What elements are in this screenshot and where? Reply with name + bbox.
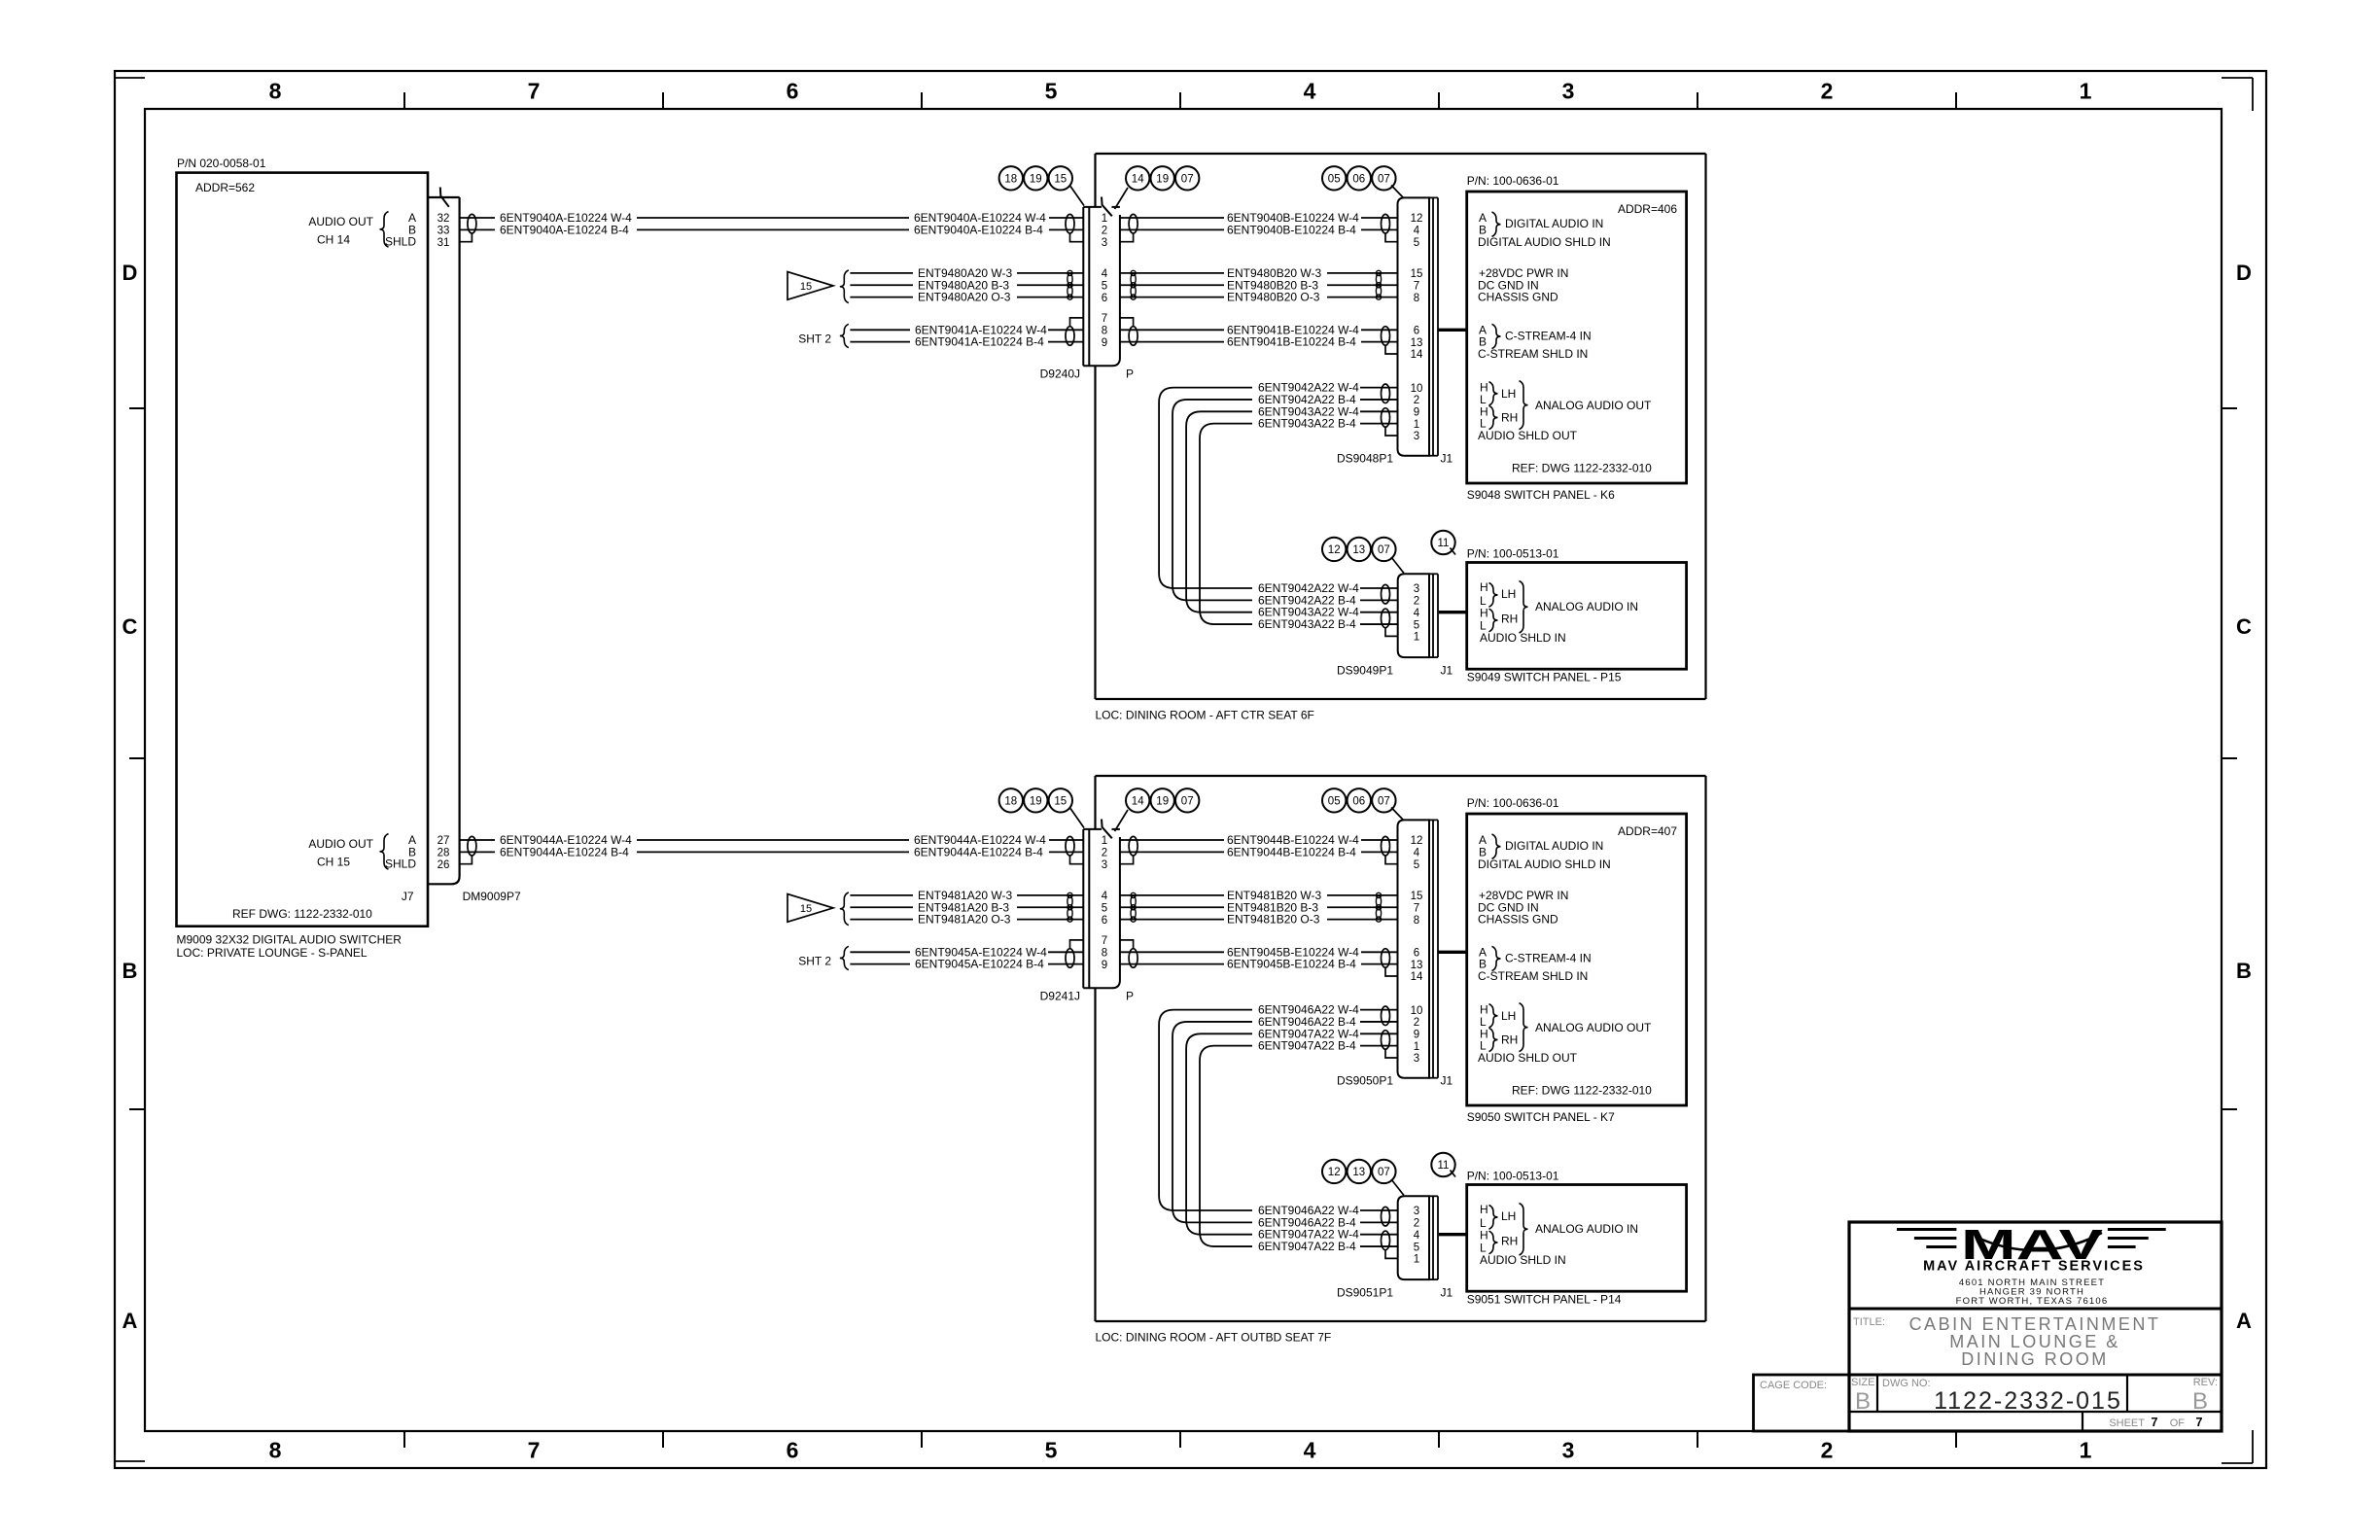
svg-text:3: 3 — [1414, 1206, 1419, 1217]
svg-text:C-STREAM SHLD IN: C-STREAM SHLD IN — [1478, 347, 1588, 361]
svg-text:M9009 32X32 DIGITAL AUDIO SWIT: M9009 32X32 DIGITAL AUDIO SWITCHER — [177, 933, 402, 947]
svg-text:6ENT9040B-E10224 B-4: 6ENT9040B-E10224 B-4 — [1227, 223, 1356, 236]
svg-text:A: A — [122, 1309, 138, 1333]
svg-text:8: 8 — [1414, 293, 1419, 304]
svg-text:5: 5 — [1102, 902, 1107, 914]
svg-text:7: 7 — [1102, 935, 1107, 947]
svg-text:2: 2 — [1414, 1218, 1419, 1230]
svg-text:D9241J: D9241J — [1040, 990, 1080, 1003]
svg-text:1: 1 — [1102, 213, 1107, 225]
svg-text:12: 12 — [1328, 1167, 1341, 1178]
svg-text:RH: RH — [1501, 1235, 1518, 1248]
svg-text:15: 15 — [1054, 795, 1067, 807]
svg-text:10: 10 — [1411, 1005, 1423, 1017]
svg-text:31: 31 — [437, 237, 450, 249]
svg-text:8: 8 — [269, 1438, 282, 1463]
svg-text:AUDIO SHLD IN: AUDIO SHLD IN — [1480, 1253, 1566, 1267]
svg-text:DIGITAL AUDIO SHLD IN: DIGITAL AUDIO SHLD IN — [1478, 857, 1611, 871]
svg-text:RH: RH — [1501, 612, 1518, 626]
svg-text:ANALOG AUDIO OUT: ANALOG AUDIO OUT — [1535, 399, 1652, 412]
svg-text:5: 5 — [1414, 237, 1419, 249]
svg-text:5: 5 — [1045, 79, 1058, 104]
svg-text:26: 26 — [437, 859, 450, 871]
svg-text:P/N: 100-0636-01: P/N: 100-0636-01 — [1467, 796, 1559, 810]
svg-text:11: 11 — [1438, 538, 1450, 549]
svg-text:3: 3 — [1414, 583, 1419, 595]
svg-text:3: 3 — [1414, 1053, 1419, 1065]
svg-text:LH: LH — [1501, 387, 1516, 401]
svg-text:8: 8 — [1102, 948, 1107, 960]
svg-text:8: 8 — [1414, 915, 1419, 927]
svg-text:06: 06 — [1352, 173, 1365, 185]
svg-text:6ENT9044B-E10224 B-4: 6ENT9044B-E10224 B-4 — [1227, 845, 1356, 858]
svg-text:3: 3 — [1414, 431, 1419, 442]
svg-text:6ENT9047A22 B-4: 6ENT9047A22 B-4 — [1258, 1240, 1356, 1253]
svg-text:J1: J1 — [1441, 1074, 1453, 1088]
svg-text:9: 9 — [1414, 1030, 1419, 1041]
svg-text:13: 13 — [1411, 960, 1423, 971]
svg-text:SIZE: SIZE — [1851, 1377, 1874, 1388]
svg-text:14: 14 — [1132, 795, 1144, 807]
svg-text:CH 15: CH 15 — [317, 855, 350, 868]
svg-text:7: 7 — [1414, 902, 1419, 914]
svg-text:P: P — [1126, 990, 1134, 1003]
svg-text:4: 4 — [1304, 1438, 1316, 1463]
svg-text:ADDR=406: ADDR=406 — [1618, 202, 1677, 216]
svg-text:ANALOG AUDIO IN: ANALOG AUDIO IN — [1535, 600, 1638, 613]
svg-text:P/N: 100-0513-01: P/N: 100-0513-01 — [1467, 1170, 1559, 1183]
svg-text:07: 07 — [1181, 173, 1194, 185]
svg-text:15: 15 — [1411, 268, 1423, 280]
svg-text:AUDIO SHLD OUT: AUDIO SHLD OUT — [1478, 429, 1578, 442]
svg-text:REV:: REV: — [2193, 1377, 2218, 1388]
svg-text:LOC: PRIVATE LOUNGE - S-PANEL: LOC: PRIVATE LOUNGE - S-PANEL — [177, 946, 367, 960]
svg-text:3: 3 — [1102, 237, 1107, 249]
svg-text:DM9009P7: DM9009P7 — [463, 890, 521, 903]
svg-text:RH: RH — [1501, 410, 1518, 424]
svg-text:6: 6 — [787, 1438, 799, 1463]
svg-text:ENT9480B20 O-3: ENT9480B20 O-3 — [1227, 291, 1320, 304]
svg-text:19: 19 — [1030, 173, 1042, 185]
svg-text:MAIN LOUNGE &: MAIN LOUNGE & — [1949, 1332, 2120, 1351]
svg-text:J7: J7 — [402, 890, 414, 903]
svg-text:33: 33 — [437, 226, 450, 237]
svg-text:LH: LH — [1501, 1009, 1516, 1023]
svg-text:DS9051P1: DS9051P1 — [1337, 1286, 1393, 1300]
svg-text:05: 05 — [1328, 795, 1341, 807]
svg-text:6ENT9041A-E10224 B-4: 6ENT9041A-E10224 B-4 — [915, 335, 1044, 349]
svg-text:5: 5 — [1414, 859, 1419, 871]
svg-text:1: 1 — [1102, 835, 1107, 847]
svg-text:LOC: DINING ROOM - AFT OUTBD S: LOC: DINING ROOM - AFT OUTBD SEAT 7F — [1096, 1331, 1332, 1345]
svg-text:2: 2 — [1821, 1438, 1834, 1463]
svg-text:CAGE CODE:: CAGE CODE: — [1760, 1380, 1827, 1391]
svg-text:6ENT9043A22 B-4: 6ENT9043A22 B-4 — [1258, 417, 1356, 431]
svg-text:CHASSIS GND: CHASSIS GND — [1478, 291, 1558, 304]
svg-text:2: 2 — [1102, 226, 1107, 237]
svg-text:2: 2 — [1414, 395, 1419, 406]
svg-text:15: 15 — [800, 281, 812, 293]
svg-text:1: 1 — [1414, 1041, 1419, 1053]
svg-text:5: 5 — [1414, 1242, 1419, 1253]
svg-text:6ENT9044A-E10224 B-4: 6ENT9044A-E10224 B-4 — [500, 845, 629, 858]
svg-text:RH: RH — [1501, 1032, 1518, 1046]
svg-text:ADDR=407: ADDR=407 — [1618, 824, 1677, 838]
svg-text:15: 15 — [1054, 173, 1067, 185]
svg-text:ANALOG AUDIO IN: ANALOG AUDIO IN — [1535, 1222, 1638, 1236]
svg-text:C-STREAM-4 IN: C-STREAM-4 IN — [1505, 329, 1592, 342]
svg-text:CABIN ENTERTAINMENT: CABIN ENTERTAINMENT — [1909, 1314, 2161, 1334]
svg-text:A: A — [2236, 1309, 2252, 1333]
svg-text:6ENT9041B-E10224 B-4: 6ENT9041B-E10224 B-4 — [1227, 335, 1356, 349]
svg-text:SHT 2: SHT 2 — [798, 954, 831, 967]
svg-text:DIGITAL AUDIO IN: DIGITAL AUDIO IN — [1505, 839, 1603, 853]
svg-text:19: 19 — [1030, 795, 1042, 807]
svg-text:12: 12 — [1328, 544, 1341, 556]
svg-text:2: 2 — [1102, 848, 1107, 859]
svg-text:27: 27 — [437, 835, 450, 847]
svg-text:15: 15 — [800, 903, 812, 915]
svg-text:6ENT9045A-E10224 B-4: 6ENT9045A-E10224 B-4 — [915, 958, 1044, 971]
svg-text:1: 1 — [1414, 632, 1419, 644]
svg-text:6ENT9040A-E10224 B-4: 6ENT9040A-E10224 B-4 — [500, 223, 629, 236]
svg-text:6ENT9045B-E10224 B-4: 6ENT9045B-E10224 B-4 — [1227, 958, 1356, 971]
svg-text:LOC: DINING ROOM - AFT CTR SEA: LOC: DINING ROOM - AFT CTR SEAT 6F — [1096, 709, 1314, 722]
svg-text:11: 11 — [1438, 1160, 1450, 1172]
svg-text:19: 19 — [1156, 795, 1169, 807]
svg-text:MAV AIRCRAFT SERVICES: MAV AIRCRAFT SERVICES — [1923, 1259, 2145, 1275]
svg-text:4: 4 — [1414, 608, 1420, 619]
svg-text:1: 1 — [1414, 419, 1419, 431]
svg-text:H: H — [1480, 580, 1488, 594]
svg-text:REF DWG: 1122-2332-010: REF DWG: 1122-2332-010 — [232, 907, 372, 921]
svg-text:14: 14 — [1132, 173, 1144, 185]
svg-text:J1: J1 — [1441, 664, 1453, 678]
svg-text:05: 05 — [1328, 173, 1341, 185]
svg-text:AUDIO SHLD OUT: AUDIO SHLD OUT — [1478, 1051, 1578, 1065]
svg-text:9: 9 — [1102, 337, 1107, 349]
svg-text:7: 7 — [2152, 1416, 2158, 1429]
svg-text:07: 07 — [1378, 173, 1390, 185]
svg-text:DIGITAL AUDIO IN: DIGITAL AUDIO IN — [1505, 217, 1603, 230]
svg-text:REF: DWG 1122-2332-010: REF: DWG 1122-2332-010 — [1512, 462, 1652, 475]
svg-text:6: 6 — [1414, 948, 1419, 960]
svg-text:D: D — [2236, 261, 2252, 285]
svg-text:5: 5 — [1045, 1438, 1058, 1463]
svg-text:8: 8 — [269, 79, 282, 104]
svg-text:5: 5 — [1102, 280, 1107, 292]
svg-text:FORT WORTH, TEXAS 76106: FORT WORTH, TEXAS 76106 — [1956, 1296, 2109, 1307]
svg-text:19: 19 — [1156, 173, 1169, 185]
svg-text:B: B — [122, 959, 138, 983]
svg-text:7: 7 — [1102, 313, 1107, 325]
svg-text:SHEET: SHEET — [2109, 1417, 2145, 1429]
svg-text:07: 07 — [1378, 544, 1390, 556]
svg-text:DIGITAL AUDIO SHLD IN: DIGITAL AUDIO SHLD IN — [1478, 235, 1611, 249]
svg-text:1122-2332-015: 1122-2332-015 — [1934, 1387, 2122, 1415]
svg-text:C-STREAM-4 IN: C-STREAM-4 IN — [1505, 951, 1592, 964]
svg-text:2: 2 — [1414, 596, 1419, 608]
svg-text:9: 9 — [1414, 407, 1419, 419]
svg-text:LH: LH — [1501, 587, 1516, 601]
svg-text:5: 5 — [1414, 619, 1419, 631]
svg-text:3: 3 — [1562, 1438, 1575, 1463]
svg-text:12: 12 — [1411, 835, 1423, 847]
svg-text:3: 3 — [1102, 859, 1107, 871]
svg-text:DS9049P1: DS9049P1 — [1337, 664, 1393, 678]
svg-text:4: 4 — [1414, 848, 1420, 859]
svg-text:AUDIO OUT: AUDIO OUT — [308, 837, 373, 851]
svg-text:D: D — [122, 261, 138, 285]
svg-text:07: 07 — [1181, 795, 1194, 807]
svg-text:6ENT9047A22 B-4: 6ENT9047A22 B-4 — [1258, 1039, 1356, 1053]
svg-text:S9050 SWITCH PANEL - K7: S9050 SWITCH PANEL - K7 — [1467, 1110, 1615, 1124]
svg-text:8: 8 — [1102, 326, 1107, 337]
svg-text:14: 14 — [1411, 349, 1423, 361]
svg-text:7: 7 — [528, 79, 541, 104]
svg-text:13: 13 — [1352, 1167, 1365, 1178]
svg-text:DINING ROOM: DINING ROOM — [1961, 1349, 2109, 1369]
svg-text:SHLD: SHLD — [385, 857, 416, 871]
svg-text:10: 10 — [1411, 383, 1423, 395]
svg-text:B: B — [2236, 959, 2252, 983]
svg-text:4: 4 — [1102, 891, 1108, 902]
svg-text:6ENT9043A22 B-4: 6ENT9043A22 B-4 — [1258, 617, 1356, 631]
svg-text:15: 15 — [1411, 891, 1423, 902]
svg-text:12: 12 — [1411, 213, 1423, 225]
svg-text:4: 4 — [1414, 1230, 1420, 1242]
svg-text:4: 4 — [1102, 268, 1108, 280]
svg-text:2: 2 — [1414, 1017, 1419, 1029]
svg-text:J1: J1 — [1441, 1286, 1453, 1300]
svg-text:4: 4 — [1304, 79, 1316, 104]
svg-text:7: 7 — [1414, 280, 1419, 292]
svg-text:1: 1 — [2080, 79, 2092, 104]
svg-text:6ENT9040A-E10224 B-4: 6ENT9040A-E10224 B-4 — [914, 223, 1043, 236]
svg-text:07: 07 — [1378, 795, 1390, 807]
svg-text:DWG NO:: DWG NO: — [1882, 1378, 1931, 1389]
svg-text:6ENT9044A-E10224 B-4: 6ENT9044A-E10224 B-4 — [914, 845, 1043, 858]
svg-text:OF: OF — [2170, 1417, 2186, 1429]
svg-text:9: 9 — [1102, 960, 1107, 971]
svg-text:AUDIO SHLD IN: AUDIO SHLD IN — [1480, 631, 1566, 645]
svg-text:S9048 SWITCH PANEL - K6: S9048 SWITCH PANEL - K6 — [1467, 488, 1615, 502]
svg-text:H: H — [1480, 1203, 1488, 1216]
svg-text:REF: DWG 1122-2332-010: REF: DWG 1122-2332-010 — [1512, 1084, 1652, 1098]
svg-text:ENT9481A20 O-3: ENT9481A20 O-3 — [918, 913, 1011, 927]
svg-text:ADDR=562: ADDR=562 — [195, 181, 255, 194]
svg-text:32: 32 — [437, 213, 450, 225]
svg-text:14: 14 — [1411, 971, 1423, 983]
svg-text:6: 6 — [1102, 915, 1107, 927]
svg-text:ENT9480A20 O-3: ENT9480A20 O-3 — [918, 291, 1011, 304]
svg-text:18: 18 — [1004, 795, 1017, 807]
svg-text:J1: J1 — [1441, 452, 1453, 466]
svg-text:13: 13 — [1411, 337, 1423, 349]
svg-text:C-STREAM SHLD IN: C-STREAM SHLD IN — [1478, 969, 1588, 983]
svg-text:06: 06 — [1352, 795, 1365, 807]
svg-text:ENT9481B20 O-3: ENT9481B20 O-3 — [1227, 913, 1320, 927]
svg-text:6: 6 — [1414, 326, 1419, 337]
svg-text:S9049 SWITCH PANEL - P15: S9049 SWITCH PANEL - P15 — [1467, 671, 1622, 684]
svg-text:DS9048P1: DS9048P1 — [1337, 452, 1393, 466]
svg-text:LH: LH — [1501, 1209, 1516, 1223]
svg-text:D9240J: D9240J — [1040, 367, 1080, 381]
svg-text:P/N: 100-0636-01: P/N: 100-0636-01 — [1467, 174, 1559, 188]
svg-text:P/N: 100-0513-01: P/N: 100-0513-01 — [1467, 547, 1559, 561]
svg-text:C: C — [122, 614, 138, 639]
svg-text:1: 1 — [1414, 1254, 1419, 1266]
svg-text:P/N 020-0058-01: P/N 020-0058-01 — [177, 157, 266, 170]
svg-text:28: 28 — [437, 848, 450, 859]
svg-text:SHLD: SHLD — [385, 235, 416, 249]
svg-text:2: 2 — [1821, 79, 1834, 104]
svg-text:CHASSIS GND: CHASSIS GND — [1478, 913, 1558, 927]
svg-text:18: 18 — [1004, 173, 1017, 185]
svg-text:13: 13 — [1352, 544, 1365, 556]
svg-text:ANALOG AUDIO OUT: ANALOG AUDIO OUT — [1535, 1021, 1652, 1034]
svg-text:B: B — [2192, 1388, 2208, 1415]
svg-text:7: 7 — [528, 1438, 541, 1463]
svg-text:C: C — [2236, 614, 2252, 639]
svg-text:3: 3 — [1562, 79, 1575, 104]
svg-text:7: 7 — [2196, 1416, 2203, 1429]
svg-text:AUDIO OUT: AUDIO OUT — [308, 215, 373, 228]
svg-text:P: P — [1126, 367, 1134, 381]
svg-text:CH 14: CH 14 — [317, 232, 350, 246]
svg-text:4: 4 — [1414, 226, 1420, 237]
svg-text:1: 1 — [2080, 1438, 2092, 1463]
svg-text:6: 6 — [787, 79, 799, 104]
svg-text:TITLE:: TITLE: — [1853, 1316, 1885, 1328]
svg-text:6: 6 — [1102, 293, 1107, 304]
svg-text:07: 07 — [1378, 1167, 1390, 1178]
svg-text:DS9050P1: DS9050P1 — [1337, 1074, 1393, 1088]
svg-text:B: B — [1855, 1388, 1871, 1415]
svg-text:S9051 SWITCH PANEL - P14: S9051 SWITCH PANEL - P14 — [1467, 1293, 1622, 1307]
svg-text:SHT 2: SHT 2 — [798, 332, 831, 345]
